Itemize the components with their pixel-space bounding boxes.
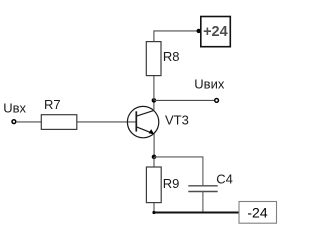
node collector junction bbox=[152, 98, 157, 103]
wire bottom rail to -24 bbox=[154, 212, 239, 214]
wire junction to R9 bbox=[153, 157, 155, 167]
resistor R9 bbox=[146, 167, 161, 203]
node bottom rail corner bbox=[152, 211, 155, 214]
node input terminal bbox=[12, 120, 16, 124]
svg-text:Uвих: Uвих bbox=[194, 77, 225, 92]
supply box -24 bbox=[239, 202, 277, 224]
wire R7 to base bbox=[77, 121, 137, 123]
capacitor C4 bbox=[188, 186, 217, 192]
resistor R7 bbox=[41, 115, 77, 130]
svg-text:R7: R7 bbox=[44, 97, 61, 112]
wire junction to C4 bbox=[154, 157, 203, 185]
svg-text:-24: -24 bbox=[247, 205, 267, 221]
node emitter junction bbox=[152, 155, 157, 160]
supply box +24 bbox=[201, 17, 231, 47]
svg-text:+24: +24 bbox=[203, 24, 228, 40]
wire C4 to bottom rail bbox=[202, 192, 204, 213]
wire emitter to junction bbox=[153, 134, 155, 157]
svg-text:C4: C4 bbox=[216, 172, 233, 187]
transistor VT3 bbox=[127, 106, 158, 137]
wire R9 to bottom rail bbox=[153, 203, 155, 213]
svg-text:Uвх: Uвх bbox=[3, 101, 26, 116]
wire input to R7 bbox=[16, 121, 41, 123]
node at +24 box bbox=[197, 29, 201, 33]
resistor R8 bbox=[146, 42, 161, 76]
wire output bbox=[154, 99, 215, 101]
svg-text:R8: R8 bbox=[163, 49, 180, 64]
svg-text:VT3: VT3 bbox=[165, 113, 189, 128]
wire collector to junction bbox=[153, 100, 155, 110]
wire junction to R8 bbox=[153, 76, 155, 101]
wire R8 to +24 bbox=[154, 31, 199, 42]
svg-text:R9: R9 bbox=[163, 176, 180, 191]
node output terminal bbox=[215, 99, 219, 103]
